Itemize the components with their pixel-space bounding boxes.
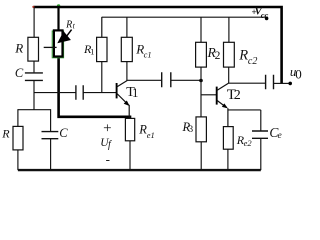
wire Re1 to ground (129, 141, 131, 171)
svg-text:3: 3 (188, 125, 193, 135)
capacitor input coupling (to T1 base) (76, 85, 83, 100)
wire Rc2 bottom to T2 collector (228, 67, 230, 83)
svg-text:+: + (103, 120, 111, 136)
wire Wien series branch vertical (feedback line to R) (33, 8, 35, 38)
wire T1 collector run to coupling cap (127, 79, 162, 81)
wire Wien mid-node jog (horizontal) (18, 109, 51, 111)
resistor Rc2 (224, 42, 235, 67)
node green dot (junction of Rt branch with feedback line) (57, 4, 60, 7)
wire parallel R to ground (17, 150, 19, 170)
wire R2 bottom through node down to R3 (200, 67, 202, 117)
capacitor Ce (emitter bypass) (252, 131, 268, 138)
wire jog down to parallel R (17, 109, 19, 126)
svg-text:C: C (59, 126, 68, 140)
wire ground bus (18, 169, 261, 171)
wire Rt lower vertical + bottom feedback run to T1 emitter (thick) (59, 56, 132, 117)
thermistor Rt arrow tail (67, 30, 72, 36)
wire R bottom to C top (33, 61, 35, 72)
transistor T1 emitter arrowhead (124, 101, 130, 107)
svg-text:R: R (65, 19, 72, 30)
svg-text:0: 0 (295, 66, 302, 81)
capacitor C (parallel arm of Wien network) (42, 132, 59, 139)
svg-text:R: R (238, 47, 248, 63)
node output terminal dot u0 (288, 82, 292, 86)
svg-text:1: 1 (132, 86, 138, 100)
transistor T1 emitter diagonal (117, 94, 129, 106)
capacitor C (series arm of Wien network) (25, 73, 43, 81)
resistor Re2 (223, 127, 233, 150)
wire base wire of T1 (from Wien mid node) (34, 92, 116, 94)
svg-text:f: f (108, 139, 112, 150)
svg-text:e1: e1 (147, 130, 155, 140)
transistor T2 emitter arrowhead (222, 103, 228, 108)
wire Rc2 top (228, 17, 230, 42)
transistor T1 collector diagonal (117, 81, 127, 87)
transistor T2 collector diagonal (217, 83, 229, 90)
wire R2 top (200, 17, 202, 42)
svg-text:t: t (73, 22, 76, 31)
svg-text:c1: c1 (144, 49, 152, 59)
svg-text:C: C (15, 66, 24, 80)
svg-text:R: R (1, 127, 10, 141)
resistor Rc1 (121, 37, 132, 61)
svg-text:2: 2 (234, 88, 241, 103)
svg-text:e: e (278, 131, 282, 141)
wire T2 emitter corner down to Re2 (227, 108, 229, 127)
wire feedback loop (thick): top rail of feedback, right drop, Rt branch (34, 7, 282, 84)
wire T1 emitter down to Re1 (128, 105, 130, 119)
node junction dot (coupling cap / R2 / base path) (199, 79, 203, 83)
wire Ce to ground (260, 138, 262, 170)
wire Vcc rail (102, 16, 268, 18)
wire Rc1 bottom to T1 collector (126, 62, 128, 81)
capacitor output coupling (266, 75, 274, 89)
wire jog down to parallel C (50, 109, 52, 131)
wire output cap to u0 terminal (274, 82, 290, 84)
resistor R3 (196, 117, 206, 142)
node red dot (left end of feedback line) (32, 6, 34, 8)
wire coupling cap to R2/R3 divider node (171, 79, 201, 81)
transistor T2 base bar (216, 87, 218, 105)
node Vcc rail end blob (265, 17, 269, 21)
wire Rc1 top (126, 17, 128, 37)
wire R3 to ground (200, 142, 202, 170)
svg-text:-: - (106, 152, 110, 167)
wire T2 base wire (201, 94, 216, 96)
wire R1 bottom to base wire (101, 62, 103, 93)
transistor T2 emitter diagonal (217, 100, 227, 107)
resistor Re1 (125, 118, 134, 140)
thermistor Rt foot stub (44, 46, 57, 48)
wire R1 top (rail corner down) (101, 17, 103, 38)
wire Rt upper vertical (thick) (57, 7, 59, 32)
thermistor Rt body (54, 30, 63, 56)
resistor R (series arm of Wien network) (28, 37, 39, 61)
wire series C down to Wien mid node (33, 81, 35, 110)
wire parallel C to ground (50, 139, 52, 170)
capacitor interstage coupling (162, 72, 171, 87)
thermistor Rt green underlay (52, 31, 63, 58)
svg-text:1: 1 (90, 47, 94, 57)
wire Re2 to ground (227, 149, 229, 170)
svg-text:e2: e2 (244, 138, 253, 148)
svg-text:R: R (14, 41, 23, 56)
thermistor Rt arrow head (57, 31, 71, 43)
wire Ce top vertical (260, 110, 262, 131)
svg-text:2: 2 (215, 50, 221, 62)
transistor T1 base bar (116, 83, 118, 98)
wire T2 collector run to output cap (229, 82, 266, 84)
wire emitter run right to Ce (228, 109, 261, 111)
resistor R (parallel arm of Wien network) (13, 126, 23, 149)
resistor R2 (196, 42, 207, 67)
svg-text:c2: c2 (248, 56, 257, 67)
resistor R1 (97, 37, 107, 61)
